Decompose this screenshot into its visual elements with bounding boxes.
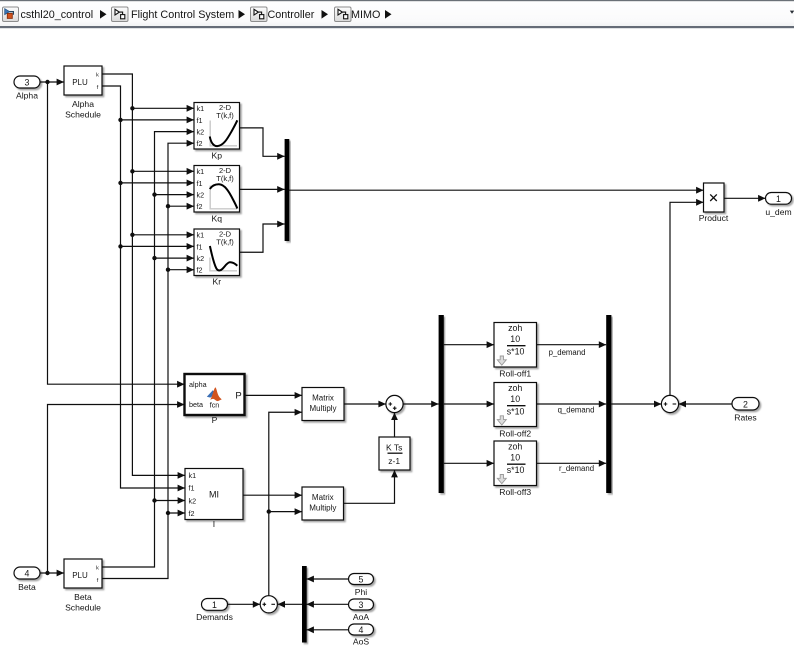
wire Roll-off1 to mux2 with label p_demand <box>537 344 607 346</box>
svg-text:k1: k1 <box>189 471 197 480</box>
breadcrumb subsystem icon 2 <box>112 7 129 22</box>
svg-text:Alpha: Alpha <box>16 91 38 101</box>
svg-text:k1: k1 <box>197 231 205 240</box>
mux2 <box>606 315 611 493</box>
wire mux1 to Product input 1 <box>289 189 704 191</box>
transfer fcn Roll-off2 <box>494 383 537 439</box>
svg-text:Product: Product <box>699 213 729 223</box>
sum3 <box>260 596 277 613</box>
svg-text:f2: f2 <box>197 202 203 211</box>
svg-text:f1: f1 <box>197 116 203 125</box>
svg-text:10: 10 <box>510 453 520 463</box>
breadcrumb model icon <box>3 7 19 22</box>
wire Matrix Multiply 2 to KTs <box>344 470 395 503</box>
wire P to Matrix Multiply 1 <box>245 394 303 396</box>
inport 3 Alpha <box>14 76 40 101</box>
svg-text:Kp: Kp <box>212 151 223 161</box>
svg-text:k2: k2 <box>197 254 205 263</box>
inport 1 Demands <box>196 599 233 622</box>
svg-text:P: P <box>235 390 241 401</box>
svg-text:f1: f1 <box>189 484 195 493</box>
svg-text:u_dem: u_dem <box>765 207 791 217</box>
svg-text:Controller: Controller <box>268 9 315 21</box>
wire Demands to sum3 <box>228 603 261 605</box>
wire Beta port to Beta Schedule <box>40 572 64 574</box>
svg-text:Flight Control System: Flight Control System <box>131 9 234 21</box>
junction f2 MI <box>166 511 170 515</box>
svg-text:k1: k1 <box>197 167 205 176</box>
wire Alpha port to Alpha Schedule <box>40 81 64 83</box>
svg-text:3: 3 <box>359 600 364 610</box>
svg-text:k2: k2 <box>197 127 205 136</box>
product block Matrix Multiply 2 <box>302 487 344 520</box>
wire demux1 to Roll-off3 <box>444 462 494 464</box>
junction k2 MI <box>152 498 156 502</box>
wire Kq to mux1 <box>240 188 285 190</box>
inport 5 Phi <box>349 574 374 598</box>
wire f1 to Kp <box>121 119 195 121</box>
wire k2 to MI <box>155 500 186 502</box>
svg-text:Roll-off3: Roll-off3 <box>499 487 531 497</box>
breadcrumb separator <box>100 10 107 19</box>
svg-text:z-1: z-1 <box>388 456 400 466</box>
svg-text:csthl20_control: csthl20_control <box>21 9 94 21</box>
svg-text:q_demand: q_demand <box>558 406 595 415</box>
svg-text:s*10: s*10 <box>507 347 525 357</box>
wire Kp to mux1 <box>240 128 285 156</box>
wire KTs to sum1 <box>394 413 396 437</box>
junction sum3 branch <box>267 509 271 513</box>
svg-text:zoh: zoh <box>508 323 522 333</box>
wire Alpha Schedule k trunk <box>102 74 185 475</box>
svg-text:AoS: AoS <box>353 637 370 647</box>
svg-text:PLU: PLU <box>72 78 88 87</box>
junction k2 Kq <box>152 192 156 196</box>
svg-text:Demands: Demands <box>196 612 233 622</box>
mux1 gains <box>285 139 290 241</box>
svg-text:1: 1 <box>776 194 781 204</box>
junction Beta <box>45 571 49 575</box>
svg-text:Beta: Beta <box>18 582 36 592</box>
svg-text:Schedule: Schedule <box>65 110 101 120</box>
svg-text:Matrix: Matrix <box>312 394 334 403</box>
wire k2 to Kq <box>155 194 195 196</box>
junction f1 Kr <box>118 244 122 248</box>
junction k2 Kr <box>152 256 156 260</box>
wire mux3 to sum3 <box>278 603 302 605</box>
svg-text:Multiply: Multiply <box>309 504 336 513</box>
wire Alpha down to P alpha input <box>48 82 185 384</box>
svg-text:Matrix: Matrix <box>312 493 334 502</box>
wire MI to Matrix Multiply 2 <box>243 494 302 496</box>
transfer fcn Roll-off1 <box>494 323 537 379</box>
junction k1 Kq <box>130 169 134 173</box>
svg-text:f1: f1 <box>197 179 203 188</box>
svg-text:k2: k2 <box>189 496 197 505</box>
inport 4 AoS <box>349 624 374 647</box>
wire demux1 to Roll-off2 <box>444 403 494 405</box>
wire f2 to Kr <box>168 269 194 271</box>
wire k1 to Kp <box>132 107 194 109</box>
junction Alpha <box>45 80 49 84</box>
svg-text:T(k,f): T(k,f) <box>216 174 234 183</box>
svg-text:2: 2 <box>743 400 748 410</box>
svg-text:4: 4 <box>359 625 364 635</box>
junction k1 Kr <box>130 233 134 237</box>
wire k1 to Kq <box>132 170 194 172</box>
breadcrumb separator <box>239 10 246 19</box>
junction f1 Kq <box>118 181 122 185</box>
svg-text:f2: f2 <box>197 139 203 148</box>
lookup block MI <box>185 469 243 529</box>
wire sum3 branch to Matrix Multiply 2 <box>269 511 302 513</box>
wire k1 to Kr <box>132 234 194 236</box>
svg-text:zoh: zoh <box>508 383 522 393</box>
wire Beta up to P beta input <box>48 405 185 574</box>
svg-text:beta: beta <box>189 400 203 409</box>
wire Matrix Multiply 1 to sum1 <box>344 403 386 405</box>
wire Kr to mux1 <box>240 224 285 252</box>
svg-text:Beta: Beta <box>74 592 92 602</box>
svg-text:fcn: fcn <box>210 400 220 409</box>
svg-text:I: I <box>213 519 215 529</box>
svg-text:PLU: PLU <box>72 571 88 580</box>
svg-text:AoA: AoA <box>353 612 370 622</box>
lookup table Kr <box>194 229 240 287</box>
wire Rates to sum2 <box>679 403 732 405</box>
product block Matrix Multiply 1 <box>302 388 344 421</box>
sum2 <box>661 395 678 412</box>
svg-text:k: k <box>96 566 99 572</box>
breadcrumb separator <box>385 10 392 19</box>
svg-text:k2: k2 <box>197 190 205 199</box>
lookup table Kq <box>194 166 240 224</box>
svg-text:r_demand: r_demand <box>559 464 594 473</box>
wire AoS to mux3 <box>307 629 349 631</box>
junction f1 Kp <box>118 118 122 122</box>
wire f1 to Kq <box>121 182 195 184</box>
svg-text:f1: f1 <box>197 242 203 251</box>
svg-text:10: 10 <box>510 394 520 404</box>
transfer fcn Roll-off3 <box>494 441 537 497</box>
wire Roll-off3 to mux2 with label r_demand <box>537 462 607 464</box>
svg-text:T(k,f): T(k,f) <box>216 238 234 247</box>
svg-text:MIMO: MIMO <box>351 9 380 21</box>
svg-text:Phi: Phi <box>355 587 368 597</box>
wire Beta Schedule f trunk <box>102 143 194 578</box>
wire mux2 to sum2 <box>611 403 661 405</box>
MATLAB function block P <box>185 374 245 425</box>
svg-text:10: 10 <box>510 334 520 344</box>
svg-text:Roll-off1: Roll-off1 <box>499 369 531 379</box>
wire AoA to mux3 <box>307 603 349 605</box>
subsystem PLU Alpha Schedule <box>64 66 102 120</box>
wire sum3 up to Matrix Multiply inputs <box>269 412 302 595</box>
lookup table Kp <box>194 103 240 161</box>
svg-text:1: 1 <box>212 600 217 610</box>
svg-text:Alpha: Alpha <box>72 99 94 109</box>
wire f1 to Kr <box>121 245 195 247</box>
wire Product to u_dem <box>724 197 766 199</box>
svg-text:s*10: s*10 <box>507 465 525 475</box>
breadcrumb separator <box>322 10 329 19</box>
wire Roll-off2 to mux2 with label q_demand <box>537 403 607 405</box>
svg-text:MI: MI <box>209 489 219 499</box>
svg-text:k1: k1 <box>197 104 205 113</box>
product block Product <box>699 183 729 223</box>
svg-text:k: k <box>96 73 99 79</box>
junction f2 Kq <box>166 204 170 208</box>
sum1 <box>386 395 403 412</box>
junction k1 Kp <box>130 106 134 110</box>
mux3 <box>302 566 307 643</box>
svg-text:s*10: s*10 <box>507 407 525 417</box>
svg-text:T(k,f): T(k,f) <box>216 111 234 120</box>
svg-text:zoh: zoh <box>508 441 522 451</box>
svg-text:p_demand: p_demand <box>549 348 586 357</box>
matlab logo <box>207 390 216 397</box>
svg-text:P: P <box>212 415 218 425</box>
svg-text:Kq: Kq <box>212 214 223 224</box>
svg-text:f2: f2 <box>189 509 195 518</box>
svg-text:Schedule: Schedule <box>65 603 101 613</box>
breadcrumb subsystem icon 3 <box>251 7 268 22</box>
svg-text:Roll-off2: Roll-off2 <box>499 428 531 438</box>
wire f2 to Kq <box>168 205 194 207</box>
breadcrumb overflow mark <box>790 11 794 14</box>
wire sum2 up to Product input 2 <box>670 202 704 395</box>
wire Alpha Schedule f trunk <box>102 86 185 488</box>
svg-text:f2: f2 <box>197 266 203 275</box>
junction f2 Kr <box>166 268 170 272</box>
wire sum1 to demux1 <box>403 403 439 405</box>
subsystem PLU Beta Schedule <box>64 559 102 613</box>
breadcrumb subsystem icon 4 <box>335 7 352 22</box>
inport 2 Rates <box>732 398 759 423</box>
svg-text:K Ts: K Ts <box>386 442 402 452</box>
wire Phi to mux3 <box>307 578 349 580</box>
svg-text:Rates: Rates <box>734 413 756 423</box>
inport 4 Beta <box>14 567 40 592</box>
svg-text:Multiply: Multiply <box>309 404 336 413</box>
discrete integrator K Ts/z-1 <box>379 437 410 470</box>
svg-text:4: 4 <box>25 569 30 579</box>
breadcrumb bar <box>0 0 794 28</box>
wire k2 to Kr <box>155 257 195 259</box>
wire f2 to MI <box>168 512 185 514</box>
demux1 <box>439 315 444 493</box>
inport 3 AoA <box>349 599 374 622</box>
svg-text:3: 3 <box>25 78 30 88</box>
outport 1 u_dem <box>765 193 791 217</box>
svg-text:5: 5 <box>359 575 364 585</box>
wire Beta Schedule k trunk <box>102 132 194 567</box>
svg-text:alpha: alpha <box>189 380 207 389</box>
wire demux1 to Roll-off1 <box>444 344 494 346</box>
svg-text:Kr: Kr <box>213 277 222 287</box>
